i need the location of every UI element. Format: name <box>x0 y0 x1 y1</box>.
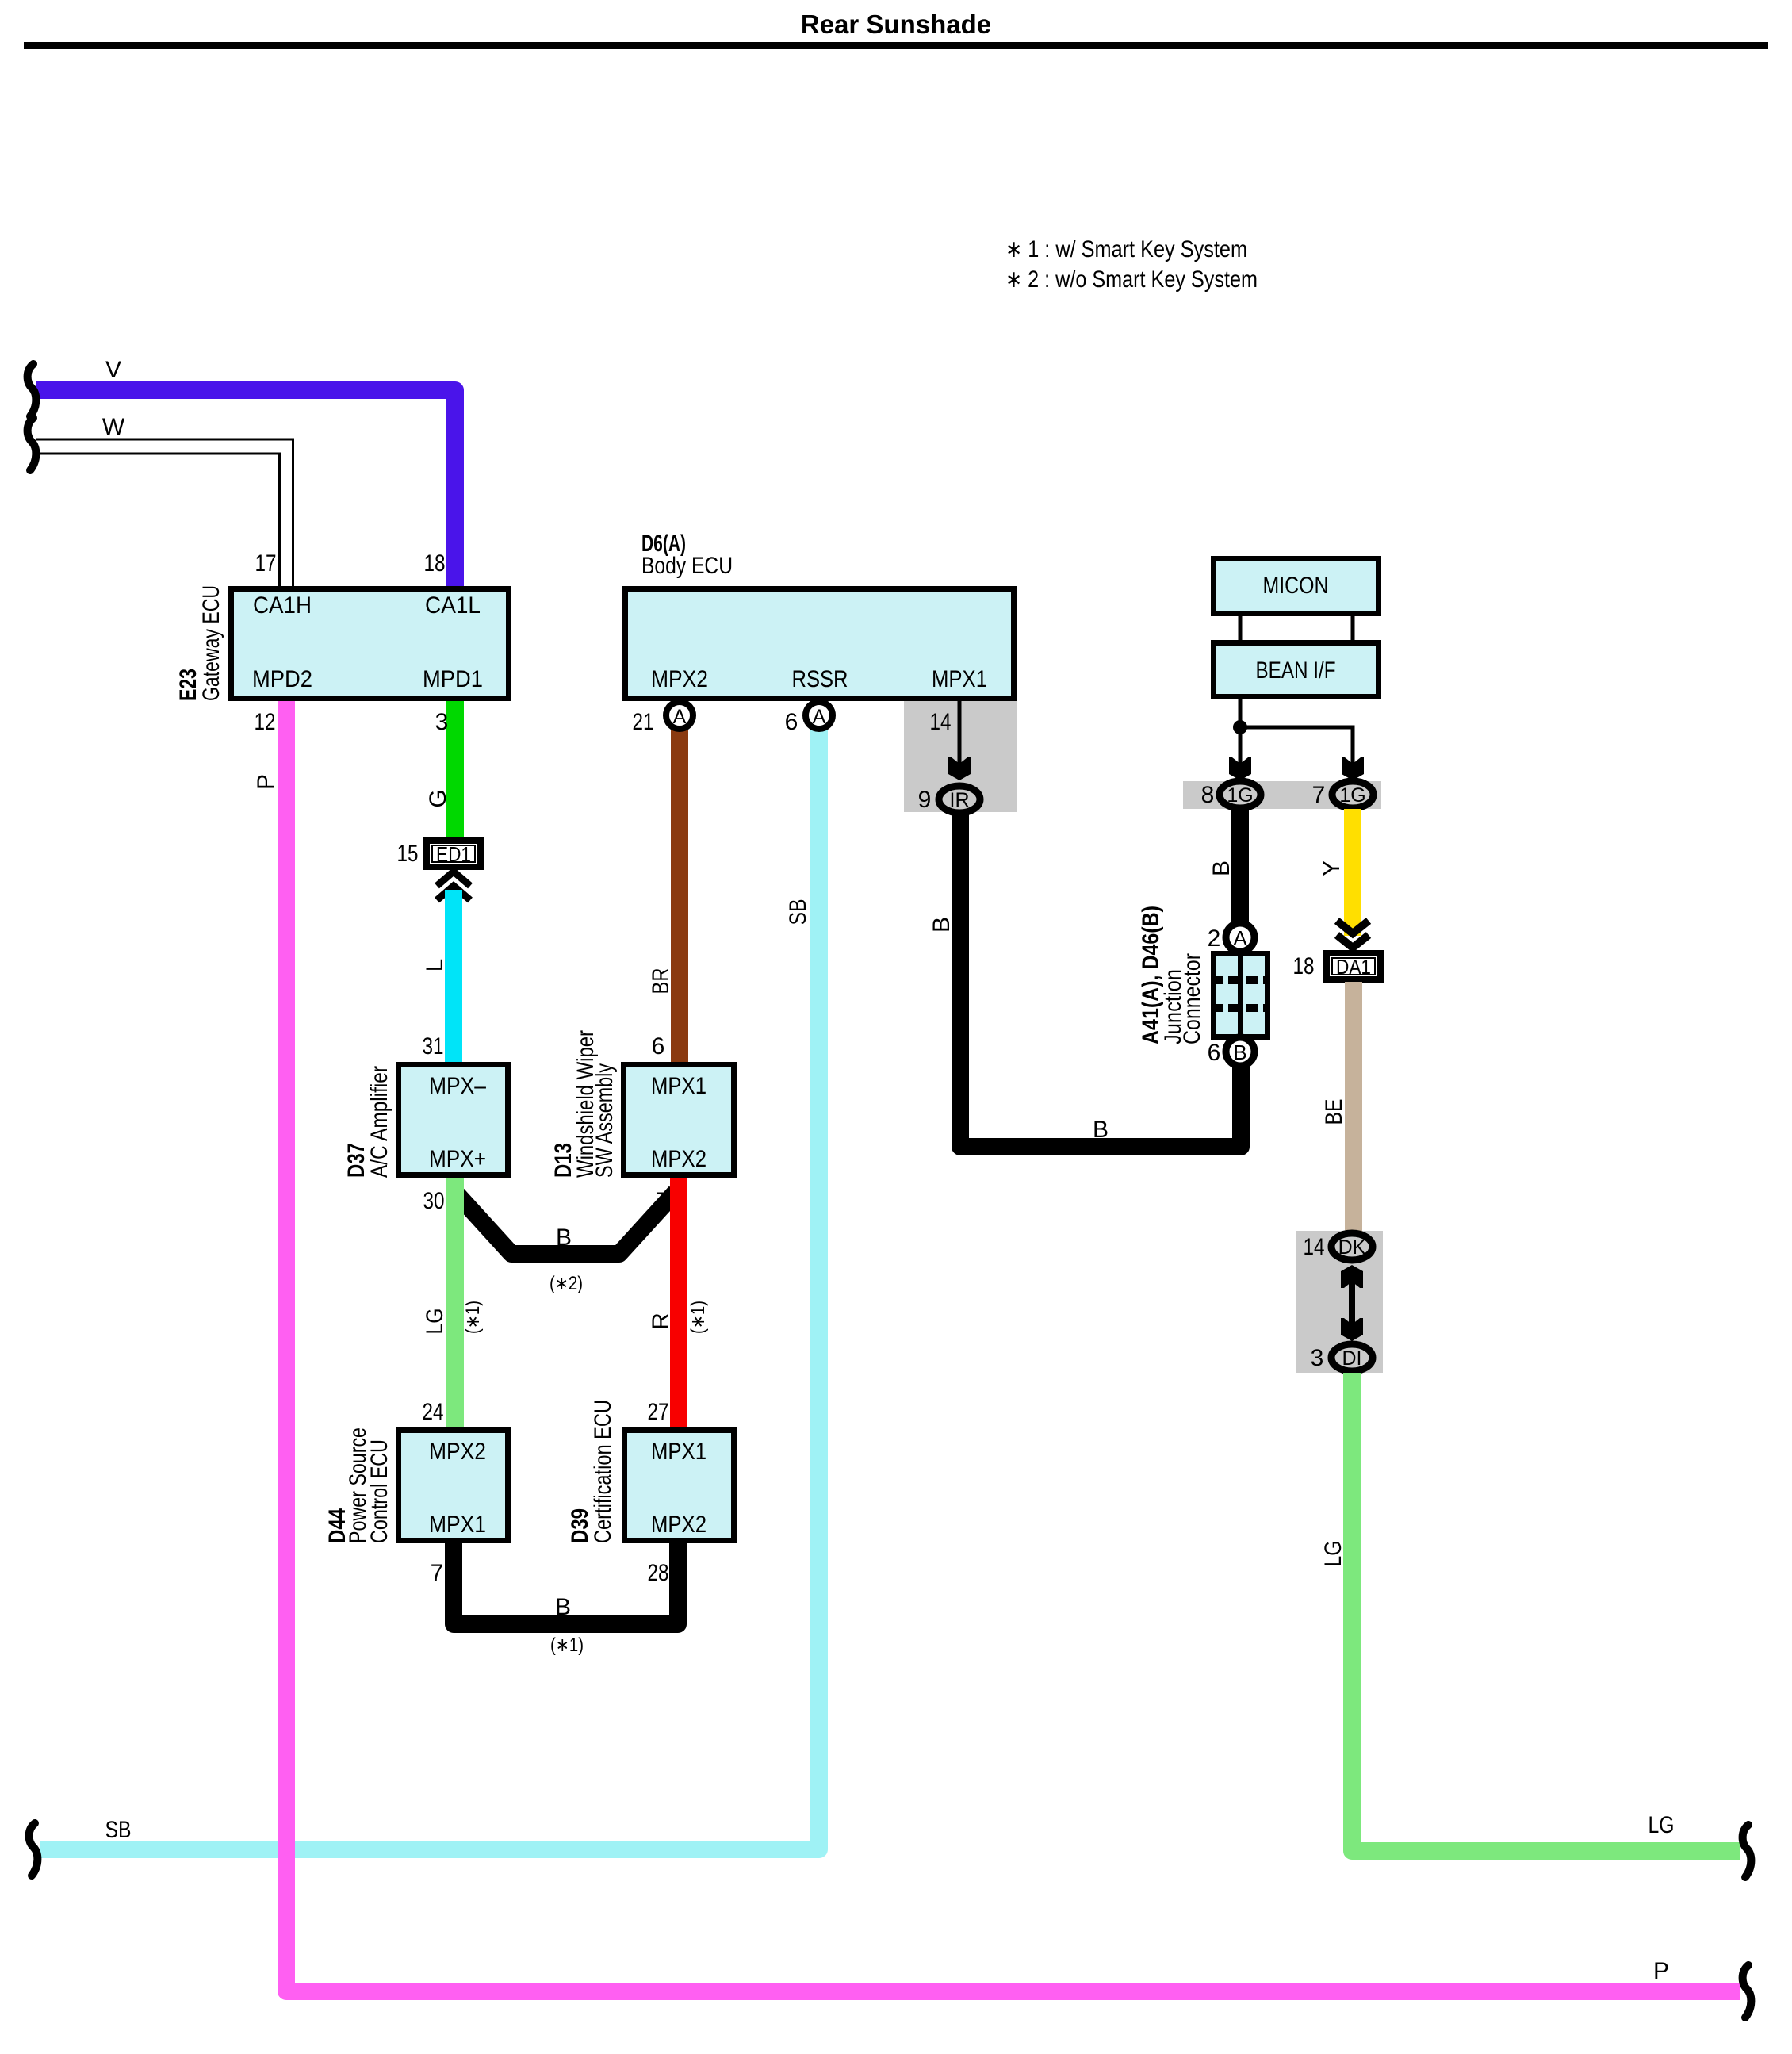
svg-text:21: 21 <box>633 709 654 735</box>
svg-text:LG: LG <box>1648 1812 1675 1838</box>
svg-text:MPX1: MPX1 <box>651 1073 706 1099</box>
svg-text:6: 6 <box>1208 1040 1221 1066</box>
svg-text:18: 18 <box>424 550 446 577</box>
svg-text:A: A <box>673 706 687 728</box>
svg-text:B: B <box>1208 860 1235 876</box>
svg-text:7: 7 <box>656 1188 669 1214</box>
svg-text:(∗1): (∗1) <box>687 1301 709 1334</box>
svg-text:B: B <box>555 1594 571 1620</box>
svg-text:DA1: DA1 <box>1336 955 1371 979</box>
svg-text:R: R <box>648 1312 674 1330</box>
svg-text:SW Assembly: SW Assembly <box>592 1063 618 1178</box>
svg-text:30: 30 <box>423 1188 445 1214</box>
svg-text:3: 3 <box>435 709 449 735</box>
svg-text:Rear Sunshade: Rear Sunshade <box>801 10 991 39</box>
svg-text:A/C Amplifier: A/C Amplifier <box>366 1066 392 1178</box>
svg-text:MPX1: MPX1 <box>651 1439 706 1465</box>
svg-text:17: 17 <box>255 550 277 577</box>
svg-text:(∗1): (∗1) <box>462 1301 484 1334</box>
svg-text:∗ 2 : w/o Smart Key System: ∗ 2 : w/o Smart Key System <box>1005 266 1258 293</box>
svg-text:B: B <box>929 917 955 933</box>
svg-text:Gateway ECU: Gateway ECU <box>198 585 224 701</box>
svg-text:7: 7 <box>1312 782 1326 808</box>
svg-text:31: 31 <box>423 1033 444 1060</box>
svg-text:B: B <box>1093 1117 1109 1143</box>
svg-text:MPX2: MPX2 <box>651 1512 706 1538</box>
svg-text:B: B <box>1233 1040 1246 1064</box>
svg-text:CA1H: CA1H <box>253 592 312 619</box>
svg-text:P: P <box>1653 1958 1669 1984</box>
svg-text:14: 14 <box>1304 1234 1325 1260</box>
svg-text:MPX2: MPX2 <box>429 1439 486 1465</box>
svg-text:BE: BE <box>1321 1099 1347 1125</box>
svg-text:1G: 1G <box>1339 784 1365 807</box>
svg-text:G: G <box>425 789 451 807</box>
svg-text:MICON: MICON <box>1263 573 1329 599</box>
svg-text:MPD1: MPD1 <box>423 666 483 692</box>
svg-text:RSSR: RSSR <box>792 666 848 692</box>
svg-text:(∗1): (∗1) <box>550 1634 584 1656</box>
svg-text:6: 6 <box>785 709 798 735</box>
svg-text:MPX1: MPX1 <box>932 666 987 692</box>
svg-text:DI: DI <box>1342 1347 1362 1370</box>
svg-text:24: 24 <box>423 1399 444 1425</box>
svg-text:18: 18 <box>1293 953 1315 979</box>
svg-text:6: 6 <box>652 1033 665 1060</box>
svg-text:Y: Y <box>1319 860 1345 876</box>
svg-text:(∗2): (∗2) <box>549 1273 583 1294</box>
svg-text:MPX1: MPX1 <box>429 1512 486 1538</box>
svg-text:7: 7 <box>431 1560 444 1586</box>
svg-text:Body ECU: Body ECU <box>641 553 733 579</box>
svg-text:1G: 1G <box>1227 784 1253 807</box>
svg-text:15: 15 <box>397 841 419 867</box>
svg-text:P: P <box>253 774 279 790</box>
svg-text:BEAN I/F: BEAN I/F <box>1256 657 1336 684</box>
svg-text:W: W <box>102 414 125 440</box>
svg-text:3: 3 <box>1311 1345 1324 1371</box>
svg-text:27: 27 <box>648 1399 669 1425</box>
svg-text:MPX2: MPX2 <box>651 1146 706 1172</box>
svg-text:MPX–: MPX– <box>429 1073 486 1099</box>
svg-text:MPX2: MPX2 <box>651 666 708 692</box>
svg-text:MPD2: MPD2 <box>252 666 312 692</box>
svg-text:CA1L: CA1L <box>425 592 481 619</box>
svg-text:2: 2 <box>1208 925 1221 952</box>
svg-text:Connector: Connector <box>1179 953 1205 1044</box>
svg-text:MPX+: MPX+ <box>429 1146 486 1172</box>
svg-text:LG: LG <box>422 1309 448 1335</box>
svg-text:28: 28 <box>648 1560 669 1586</box>
svg-text:9: 9 <box>918 787 932 813</box>
svg-text:14: 14 <box>930 709 952 735</box>
svg-text:∗ 1 : w/ Smart Key System: ∗ 1 : w/ Smart Key System <box>1005 236 1247 262</box>
svg-text:A: A <box>813 706 826 728</box>
svg-text:Certification ECU: Certification ECU <box>590 1400 616 1543</box>
svg-text:SB: SB <box>105 1817 132 1843</box>
svg-text:IR: IR <box>950 789 970 811</box>
svg-text:DK: DK <box>1338 1236 1366 1259</box>
svg-text:L: L <box>422 959 448 972</box>
svg-text:SB: SB <box>785 899 811 925</box>
svg-text:BR: BR <box>648 968 674 994</box>
svg-text:12: 12 <box>255 709 276 735</box>
svg-text:ED1: ED1 <box>436 842 471 866</box>
svg-text:V: V <box>105 357 121 383</box>
svg-text:B: B <box>556 1224 572 1251</box>
svg-text:LG: LG <box>1320 1541 1346 1567</box>
svg-text:A: A <box>1233 926 1247 950</box>
svg-text:Control ECU: Control ECU <box>366 1439 392 1543</box>
svg-text:8: 8 <box>1201 782 1215 808</box>
